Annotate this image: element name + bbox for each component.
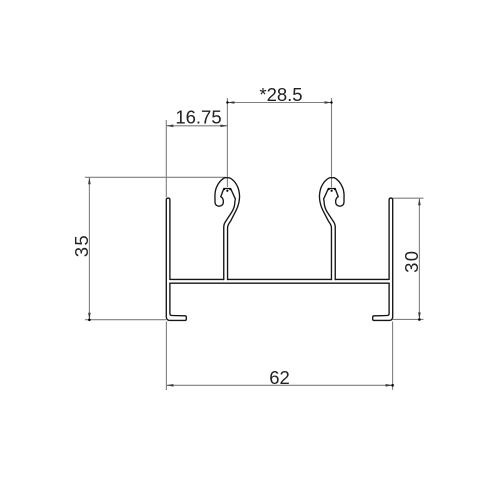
profile left wall and foot [166,198,186,320]
extension line hooks top (y=177.3) [85,176,226,178]
dimension line 30 [418,198,420,319]
profile right wall and foot [373,198,393,320]
svg-text:35: 35 [71,234,92,257]
arrow right of *28.5 [325,101,332,104]
svg-text:30: 30 [401,250,422,273]
profile hook 1 cavity corner marks [223,188,225,190]
dimension line 35 [88,177,90,319]
profile web bottom line [170,282,389,284]
arrow right of 16.75 [220,125,227,128]
extension line left wall top (x=166.3) [165,120,167,197]
dimension line 62 [166,384,392,386]
arrow bottom of 35 [88,313,91,320]
profile hook 2 center mark [331,190,333,192]
extension line profile bottom left (y=319.7) [85,319,166,321]
dimension line *28.5 [227,102,331,104]
extension line hook1 center (x=227.4) [226,98,228,187]
profile hook 2 cavity corner marks [334,188,336,190]
svg-text:62: 62 [269,367,290,388]
dimension line 16.75 [166,125,227,127]
profile web top line segment 3 [335,278,389,280]
extension line 62 left (x=166.4) [165,322,167,391]
profile hook 1 center mark [226,190,228,192]
defpoint dot 62 [391,384,394,387]
defpoint dot *28.5 left [226,101,228,103]
profile web top line segment 1 [170,278,224,280]
extension line profile bottom right (y=319.4) [393,318,424,320]
defpoint dot *28.5 right [330,101,332,103]
arrow bottom of 30 [418,312,421,319]
extension line right wall top (y=198.2) [393,197,424,199]
defpoint dot 30 [418,318,421,321]
arrow left of 16.75 [166,125,173,128]
profile web top line segment 2 [228,278,332,280]
profile hook 1 outline [215,178,240,280]
arrow top of 35 [88,177,91,184]
arrow right of 62 [386,384,393,387]
svg-text:16.75: 16.75 [175,106,221,127]
svg-text:*28.5: *28.5 [259,84,302,105]
defpoint dot 35 [88,319,91,322]
extension line 62 right (x=392.6) [392,322,394,390]
arrow left of *28.5 [227,101,234,104]
profile hook 2 outline [319,178,344,280]
arrow left of 62 [166,384,173,387]
extension line hook2 center (x=331.5) [331,98,333,187]
arrow top of 30 [418,198,421,205]
